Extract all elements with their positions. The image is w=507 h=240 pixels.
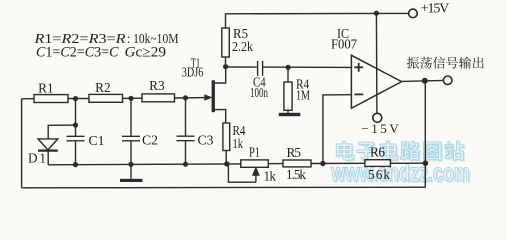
svg-text:P1: P1: [249, 145, 260, 160]
terminal -15V: [373, 113, 382, 122]
capacitor C2: [122, 135, 140, 137]
node A (R1/R2/C1 junction): [73, 96, 78, 101]
svg-text:R2: R2: [95, 80, 111, 95]
svg-text:−15V: −15V: [361, 121, 399, 136]
node B (R2/R3/C2 junction): [128, 96, 133, 101]
wire R3 to gate: [175, 97, 207, 99]
label output Chinese 振荡信号输出: [407, 57, 484, 69]
svg-text:+15V: +15V: [421, 2, 450, 17]
ground below C2: [120, 179, 143, 182]
op-amp + input sign: [354, 66, 363, 68]
svg-text:C3: C3: [198, 133, 214, 148]
wire op-amp output: [402, 80, 444, 81]
node C (R3/C3/gate junction): [183, 95, 188, 100]
wire R2 to node B: [123, 97, 143, 99]
svg-text:C1: C1: [89, 133, 105, 148]
svg-text:www.cndzz.com: www.cndzz.com: [330, 159, 470, 187]
transistor Q T1 gate arrow: [205, 95, 212, 100]
op-amp U1 triangle: [351, 55, 401, 108]
node I (R4 1k / P1 junction): [224, 161, 229, 166]
wire bottom RC row: [48, 163, 241, 166]
wire R5 top to +15V rail: [226, 13, 409, 28]
resistor R6 56k: [365, 160, 391, 167]
node J (feedback to - input): [320, 161, 325, 166]
resistor R1: [34, 95, 68, 103]
op-amp supply line vertical: [375, 13, 378, 113]
wire node A down to node H: [75, 99, 77, 137]
resistor R4 1k (source): [223, 123, 230, 151]
svg-text:Gc≥29: Gc≥29: [125, 45, 166, 61]
node C1 bottom: [73, 162, 78, 167]
svg-text:F007: F007: [331, 37, 357, 52]
svg-text:1k: 1k: [264, 169, 277, 184]
wire R1 to node A: [68, 98, 89, 100]
terminal output circle: [443, 76, 452, 85]
watermark site name: [330, 141, 472, 189]
svg-text:R1: R1: [38, 80, 54, 95]
resistor R5 1.5k (bottom): [283, 160, 311, 167]
diode D1: [38, 139, 58, 150]
wire P1 wiper loop to node I: [228, 164, 256, 182]
wire R5 bottom to node D: [225, 57, 227, 67]
svg-text:R3: R3: [149, 78, 165, 93]
svg-text:1.5k: 1.5k: [286, 167, 306, 182]
wire output down to feedback row and bottom rail: [424, 81, 426, 188]
op-amp - input sign: [354, 93, 363, 95]
node C3 bottom: [183, 162, 188, 167]
svg-text:100n: 100n: [250, 85, 268, 100]
ground below R4 1M: [279, 113, 301, 116]
capacitor C1: [67, 135, 85, 137]
node on +15V rail (op-amp supply tap): [374, 11, 379, 16]
wire - input to feedback node: [323, 95, 352, 164]
resistor R3: [142, 94, 175, 102]
svg-text:1M: 1M: [296, 88, 310, 103]
svg-text:3DJ6: 3DJ6: [182, 65, 204, 80]
transistor T1 channel bar: [212, 80, 215, 112]
wire node B down to C2: [130, 98, 132, 136]
node H (D1/C1 branch): [73, 123, 78, 128]
transistor T1 source lead: [215, 110, 226, 123]
transistor T1 drain lead: [215, 67, 226, 83]
wire R5 to node J: [311, 162, 365, 164]
svg-text:C2: C2: [142, 133, 158, 148]
wire R6 to node G: [390, 162, 425, 164]
wire: bottom outer horizontal: [22, 186, 426, 189]
svg-text:D1: D1: [28, 151, 46, 166]
svg-text:2.2k: 2.2k: [232, 39, 253, 54]
svg-text:R5: R5: [287, 145, 302, 160]
terminal +15V: [409, 9, 418, 18]
wire node H to diode D1: [48, 125, 75, 139]
resistor R4 1M: [287, 67, 289, 82]
potentiometer P1 body: [241, 160, 268, 167]
wire node D to C4: [226, 66, 258, 68]
wire P1 to R5: [268, 163, 283, 165]
svg-text:1k: 1k: [233, 136, 244, 151]
wire C4 to node E and op-amp + input: [263, 66, 352, 68]
resistor R2: [89, 94, 123, 102]
svg-text:C1=C2=C3=C: C1=C2=C3=C: [36, 45, 119, 61]
capacitor C3: [177, 135, 195, 137]
potentiometer P1 wiper arrow: [255, 174, 257, 183]
wire: top bend into R1: [22, 98, 34, 100]
resistor R5 2.2k (top): [222, 28, 230, 57]
node F (output junction): [422, 78, 428, 84]
capacitor C4 100n: [257, 61, 259, 76]
node E (C4 / R4 1M / op+ junction): [286, 65, 291, 70]
wire node C down to C3: [185, 98, 187, 136]
node C2 bottom: [128, 162, 133, 167]
wire: left outer vertical: [21, 99, 23, 188]
node D (drain / R5 / C4 junction): [223, 64, 228, 69]
node G (R6 right junction): [423, 160, 429, 166]
